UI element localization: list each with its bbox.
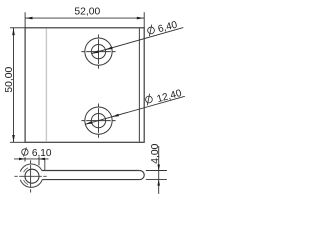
hole H2 centerline vertical <box>98 104 100 138</box>
dimension 52,00 line <box>25 17 144 19</box>
dimension 4,00 line <box>158 146 160 194</box>
dimension 50,00 arrows <box>12 28 15 35</box>
dimension 50,00 extension lines <box>10 27 25 29</box>
side view: sheet bar bottom edge <box>42 179 139 181</box>
side view: bore D6,10 circle <box>25 169 39 183</box>
dimension 4,00 arrows <box>157 165 160 171</box>
diameter dim D12,40 label <box>144 86 183 108</box>
svg-text:6,10: 6,10 <box>32 148 52 159</box>
dimension D6,10 arrows <box>19 158 25 161</box>
hub centerline horizontal <box>14 175 46 177</box>
side view: curl sheet-end arc <box>24 168 29 173</box>
diameter dim D12,40 arrows <box>111 114 119 118</box>
hole H1 centerline vertical <box>98 35 100 69</box>
hole H1 counterbore circle <box>85 38 112 65</box>
hole H2 centerline horizontal <box>81 120 115 122</box>
side view: curl tangent edge <box>44 159 46 170</box>
hole H2 counterbore circle <box>85 107 112 134</box>
side view: sheet bar top edge <box>42 170 140 172</box>
svg-text:50,00: 50,00 <box>4 67 15 93</box>
diameter dim D6,40 label <box>146 18 179 38</box>
hole H1 centerline horizontal <box>81 51 115 53</box>
side view: curl sheet-end arc lower <box>24 180 29 185</box>
hub centerline vertical <box>30 160 32 192</box>
diameter dim D12,40 line <box>85 96 185 124</box>
svg-text:4,00: 4,00 <box>150 143 161 163</box>
dimension 50,00 line <box>13 28 15 142</box>
side view: bar right rounded end <box>140 171 145 180</box>
diameter dim D6,40 arrows <box>105 47 113 51</box>
hole H1 bore circle <box>91 44 105 58</box>
svg-text:52,00: 52,00 <box>74 7 100 18</box>
side view: curl outer surface arc lower <box>20 180 42 188</box>
dimension D6,10 extension lines <box>24 157 26 161</box>
dimension 52,00 extension lines <box>24 12 26 27</box>
plate outline (front view, 52 x 50) <box>25 28 144 143</box>
hole H2 bore circle <box>91 113 105 127</box>
side view: curl outer surface arc upper <box>20 164 42 172</box>
dimension 52,00 arrows <box>25 17 32 20</box>
plate left tangent edge line (light) <box>45 28 47 141</box>
dimension D6,10 label <box>22 147 52 159</box>
dimension 4,00 extension lines <box>146 170 167 172</box>
dimension D6,10 line <box>14 158 49 160</box>
diameter dim D6,40 line <box>92 28 184 54</box>
plate right inner edge line <box>138 28 140 141</box>
